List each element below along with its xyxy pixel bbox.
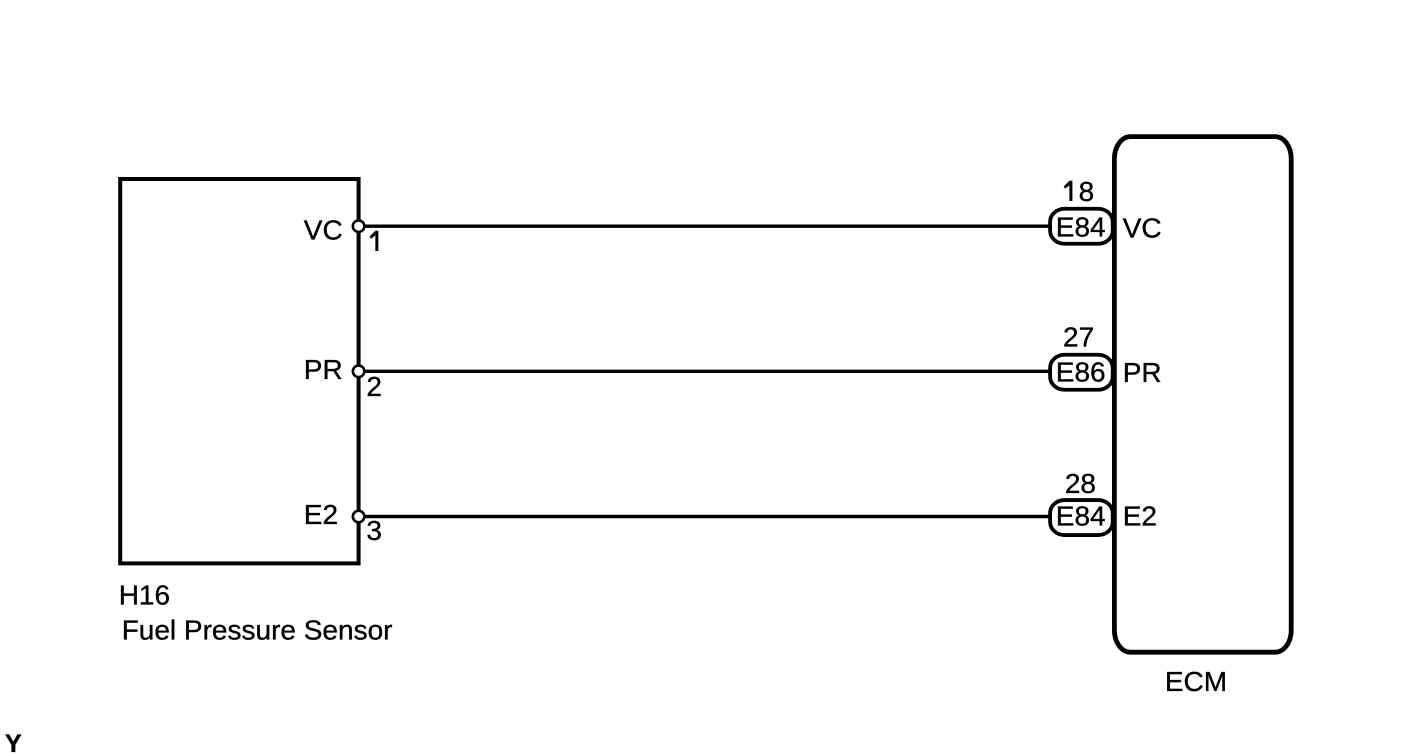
svg-text:E86: E86 bbox=[1056, 357, 1106, 388]
svg-text:PR: PR bbox=[304, 354, 343, 385]
svg-text:E84: E84 bbox=[1056, 500, 1106, 531]
svg-text:E2: E2 bbox=[304, 499, 338, 530]
svg-text:E2: E2 bbox=[1123, 501, 1157, 532]
svg-text:E84: E84 bbox=[1056, 211, 1106, 242]
svg-text:H16: H16 bbox=[119, 580, 170, 611]
svg-text:28: 28 bbox=[1065, 468, 1096, 499]
svg-text:Y: Y bbox=[5, 730, 22, 756]
svg-text:VC: VC bbox=[304, 215, 343, 246]
svg-text:27: 27 bbox=[1063, 321, 1094, 352]
svg-text:PR: PR bbox=[1123, 357, 1162, 388]
svg-text:3: 3 bbox=[366, 515, 382, 546]
svg-text:Fuel Pressure Sensor: Fuel Pressure Sensor bbox=[122, 614, 393, 645]
svg-text:ECM: ECM bbox=[1165, 666, 1227, 697]
svg-text:VC: VC bbox=[1123, 213, 1162, 244]
svg-text:2: 2 bbox=[366, 371, 382, 402]
svg-text:8: 8 bbox=[1079, 176, 1095, 207]
